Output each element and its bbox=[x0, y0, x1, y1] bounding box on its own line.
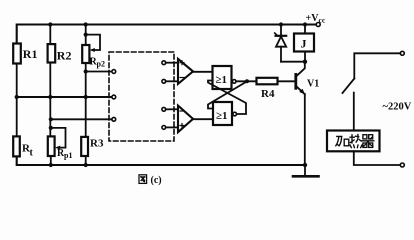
wire terminal7 to comparator U2 bbox=[166, 126, 178, 128]
node mains terminal top bbox=[400, 51, 404, 55]
transistor V1 bbox=[296, 62, 319, 94]
svg-text:≥1: ≥1 bbox=[216, 74, 228, 86]
node mid rail junction col1 bbox=[15, 95, 19, 99]
wire emitter down to ground rail bbox=[304, 94, 306, 165]
svg-text:R4: R4 bbox=[261, 88, 275, 100]
op-amp U2 comparator bbox=[178, 106, 193, 133]
potentiometer Rp1 bbox=[48, 126, 73, 160]
node IC terminal 7 bbox=[162, 126, 166, 130]
resistor R4 bbox=[257, 78, 278, 100]
wire column3 Rp2 R3 bbox=[85, 25, 87, 46]
wire diode to relay bottom bbox=[281, 61, 305, 63]
resistor R2 bbox=[48, 44, 72, 62]
wire cross feedback G1 to G2 input bbox=[208, 81, 247, 108]
IC dashed box bbox=[109, 52, 174, 141]
node top rail junction R2 column bbox=[48, 22, 52, 26]
relay coil J bbox=[294, 25, 314, 62]
ground bbox=[293, 165, 319, 176]
node top rail junction Rp2 column bbox=[84, 22, 88, 26]
node IC terminal 1 bbox=[112, 70, 116, 74]
wire U1 output to gate G1 bbox=[193, 71, 213, 73]
node mains terminal bottom bbox=[400, 163, 404, 167]
wire terminal5 to comparator U1 bbox=[166, 80, 178, 82]
label +Vcc bbox=[306, 13, 326, 25]
svg-text:R2: R2 bbox=[57, 49, 72, 63]
node emitter rail junction bbox=[303, 163, 307, 167]
wire switch contact to heater bbox=[353, 93, 355, 131]
node bottom rail junction Rp1 bbox=[49, 163, 53, 167]
wire terminal6 to comparator U2 bbox=[166, 108, 178, 110]
svg-text:p2: p2 bbox=[97, 60, 105, 69]
svg-text:≥1: ≥1 bbox=[216, 110, 228, 122]
svg-text:J: J bbox=[301, 37, 307, 51]
wire Rp1 bottom to rail bbox=[50, 156, 52, 165]
diode VD flyback bbox=[275, 25, 287, 62]
node bottom rail junction R3 bbox=[84, 163, 88, 167]
node mid rail junction col2 bbox=[48, 95, 52, 99]
svg-text:~220V: ~220V bbox=[383, 101, 412, 112]
svg-text:cc: cc bbox=[319, 16, 326, 25]
potentiometer Rp2 bbox=[82, 33, 105, 69]
node collector junction bbox=[303, 60, 307, 64]
heater box bbox=[327, 131, 380, 152]
node cross junction bbox=[245, 79, 249, 83]
node IC terminal 3 bbox=[112, 117, 116, 121]
wire top rail bbox=[17, 25, 316, 44]
node IC terminal 2 bbox=[112, 95, 116, 99]
wire cross feedback G2 to G1 input bbox=[208, 81, 246, 115]
node +Vcc terminal bbox=[316, 23, 320, 27]
svg-text:V1: V1 bbox=[307, 78, 319, 89]
svg-text:(c): (c) bbox=[151, 175, 162, 186]
switch relay contact blade bbox=[343, 79, 355, 94]
svg-text:+V: +V bbox=[306, 13, 320, 24]
svg-text:R1: R1 bbox=[23, 47, 38, 61]
node top rail junction diode bbox=[279, 22, 283, 26]
node IC terminal 5 bbox=[162, 79, 166, 83]
wire R4 to base bbox=[278, 80, 295, 82]
resistor R1 bbox=[13, 44, 37, 64]
wire bottom rail bbox=[17, 156, 305, 165]
node top rail junction relay bbox=[303, 22, 307, 26]
wire column1 R1 to mid rail to Rt bbox=[16, 64, 18, 137]
gate G1 NOR bbox=[213, 66, 237, 89]
wire heater bottom to mains terminal bbox=[354, 151, 401, 165]
node IC terminal 4 bbox=[162, 61, 166, 65]
wire mid rail bbox=[17, 96, 112, 98]
resistor R3 bbox=[81, 137, 104, 156]
wire U2 output to gate G2 bbox=[193, 118, 213, 120]
op-amp U1 comparator bbox=[178, 59, 193, 84]
caption 图 (c) bbox=[139, 175, 162, 186]
node IC terminal 6 bbox=[162, 107, 166, 111]
wire Rp1 wiper to IC terminal 3 bbox=[51, 118, 112, 120]
label heater 加热器 glyphs bbox=[336, 135, 374, 148]
svg-text:p1: p1 bbox=[64, 151, 72, 160]
wire terminal4 to comparator U1 bbox=[166, 62, 178, 64]
wire column2 R2 to mid rail to Rp1 bbox=[49, 25, 51, 45]
svg-text:R3: R3 bbox=[90, 137, 104, 149]
resistor Rt bbox=[13, 136, 33, 158]
node Rp1 wiper tap junction bbox=[49, 117, 53, 121]
wire G1 output to R4 bbox=[236, 80, 257, 82]
gate G2 NOR bbox=[213, 102, 237, 125]
wire mains top to switch bbox=[354, 53, 400, 78]
node mid rail junction col3 bbox=[84, 95, 88, 99]
wire to IC terminal 1 bbox=[86, 71, 112, 73]
node tap Rp2 bottom bbox=[84, 69, 88, 73]
